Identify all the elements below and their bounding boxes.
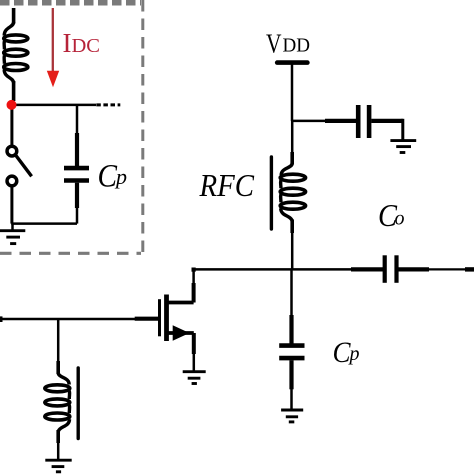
transistor M1 (NMOS)	[135, 268, 196, 372]
inductor L2 core bar	[76, 368, 79, 439]
node A (red junction dot)	[7, 100, 17, 110]
wire bottom of box	[11, 222, 77, 225]
inductor L2 (source/gate degeneration)	[45, 361, 70, 460]
ground (Cp output)	[281, 410, 303, 422]
ground (box)	[0, 224, 25, 244]
dashed enclosure box (tuning network)	[0, 0, 143, 254]
ground (M1 source)	[183, 372, 206, 384]
drain lead	[167, 301, 194, 305]
gate input rail wire	[0, 318, 136, 321]
dc current arrow IDC	[52, 8, 54, 73]
svg-text:IDC: IDC	[63, 28, 100, 58]
main output rail wire	[194, 268, 384, 271]
capacitor Cp (output)	[279, 315, 304, 410]
svg-text:p: p	[114, 164, 127, 189]
source wire down	[192, 333, 196, 354]
drain wire up to rail	[192, 283, 196, 303]
bypass capacitor C1	[358, 105, 403, 140]
capacitor Co	[385, 255, 474, 282]
svg-text:RFC: RFC	[199, 168, 255, 203]
gate lead	[135, 317, 158, 321]
wire node B to bypass capacitor	[292, 120, 327, 123]
ground (bypass capacitor)	[390, 141, 416, 153]
source lead	[167, 331, 194, 335]
VDD supply bar	[277, 60, 307, 65]
channel bar	[164, 295, 169, 342]
svg-text:V: V	[266, 27, 282, 58]
inductor L1 (top-left, bias choke)	[4, 8, 28, 101]
gate bar	[158, 299, 161, 336]
svg-text:o: o	[395, 207, 405, 229]
inductor RFC core bar	[270, 157, 273, 229]
wire continuation dots	[96, 103, 120, 106]
ground (L2)	[45, 460, 71, 472]
source arrow	[173, 325, 190, 341]
wire junction to Cp2	[290, 269, 293, 317]
wire VDD to node B	[291, 63, 294, 121]
wire gate junction down to L2	[57, 319, 60, 363]
svg-text:C: C	[98, 158, 118, 194]
switch S1	[7, 105, 32, 224]
wire node A to Cp branch	[12, 104, 96, 107]
inductor RFC	[280, 121, 305, 269]
wire branch down to capacitor Cp	[76, 105, 79, 134]
svg-text:p: p	[348, 343, 360, 365]
svg-text:DD: DD	[283, 35, 311, 57]
capacitor Cp (inside box)	[64, 133, 89, 224]
